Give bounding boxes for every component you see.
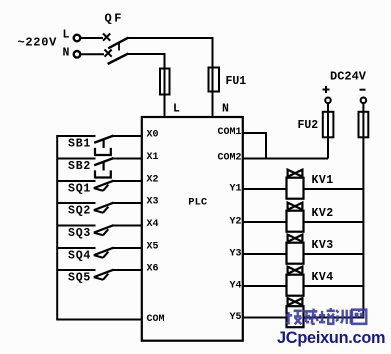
svg-text:KV2: KV2 xyxy=(312,207,334,220)
svg-text:X6: X6 xyxy=(147,264,159,275)
svg-text:COM1: COM1 xyxy=(217,127,241,138)
svg-text:FU1: FU1 xyxy=(226,75,247,88)
svg-text:X1: X1 xyxy=(147,152,159,163)
svg-text:X3: X3 xyxy=(147,197,159,208)
svg-text:X5: X5 xyxy=(147,242,159,253)
svg-text:~220V: ~220V xyxy=(18,36,58,50)
svg-text:SB1: SB1 xyxy=(68,137,91,150)
svg-text:N: N xyxy=(63,46,70,59)
svg-text:PLC: PLC xyxy=(188,197,208,209)
svg-text:SQ2: SQ2 xyxy=(68,204,91,217)
svg-text:SQ3: SQ3 xyxy=(68,227,91,240)
svg-text:FU2: FU2 xyxy=(298,119,319,132)
svg-text:SQ4: SQ4 xyxy=(68,249,91,262)
svg-text:Y4: Y4 xyxy=(229,281,241,292)
svg-text:X4: X4 xyxy=(147,219,159,230)
svg-text:X2: X2 xyxy=(147,175,159,186)
svg-text:SQ1: SQ1 xyxy=(68,182,91,195)
svg-text:KV1: KV1 xyxy=(312,174,334,187)
svg-text:Y5: Y5 xyxy=(229,312,241,323)
svg-text:L: L xyxy=(173,103,180,116)
svg-text:QF: QF xyxy=(105,12,124,26)
svg-text:COM2: COM2 xyxy=(217,152,241,163)
svg-text:DC24V: DC24V xyxy=(330,70,367,84)
svg-text:KV4: KV4 xyxy=(312,271,334,284)
svg-text:Y1: Y1 xyxy=(229,184,241,195)
svg-text:COM: COM xyxy=(147,314,165,325)
svg-text:N: N xyxy=(222,103,229,116)
svg-text:SQ5: SQ5 xyxy=(68,271,91,284)
svg-text:KV3: KV3 xyxy=(312,239,334,252)
svg-text:X0: X0 xyxy=(147,130,159,141)
svg-text:L: L xyxy=(63,29,70,42)
svg-text:Y2: Y2 xyxy=(229,217,241,228)
svg-text:JCpeixun.com: JCpeixun.com xyxy=(277,329,385,347)
svg-text:Y3: Y3 xyxy=(229,249,241,260)
svg-text:SB2: SB2 xyxy=(68,160,91,173)
